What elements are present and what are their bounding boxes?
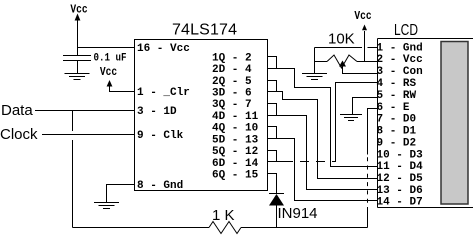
svg-text:13 - D6: 13 - D6 [377, 185, 423, 197]
wire 2Q/3D to LCD D5 [277, 92, 378, 179]
svg-text:2D - 4: 2D - 4 [212, 64, 252, 76]
svg-text:16 - Vcc: 16 - Vcc [137, 43, 190, 55]
svg-text:5Q - 12: 5Q - 12 [212, 146, 258, 158]
wire LCD Gnd to pot ground (gap at Vcc crossing) [315, 47, 378, 49]
wire 3Q/4D to LCD D6 [277, 116, 378, 190]
pot wiper arrow [339, 61, 346, 67]
svg-text:74LS174: 74LS174 [172, 22, 237, 39]
wire Data to pin3 1D [35, 110, 134, 112]
svg-text:1 - _Clr: 1 - _Clr [137, 87, 190, 99]
wire Clock to pin9 Clk [42, 134, 134, 136]
svg-text:1Q - 2: 1Q - 2 [212, 53, 252, 65]
svg-text:Vcc: Vcc [100, 66, 117, 79]
ground (capacitor) [65, 74, 90, 80]
svg-text:12 - D5: 12 - D5 [377, 173, 424, 185]
Vcc label top-left [70, 4, 87, 17]
wire E node vertical dashed crossing [367, 155, 369, 212]
svg-text:Clock: Clock [0, 126, 38, 143]
Vcc label mid-left [100, 66, 117, 79]
svg-text:Vcc: Vcc [70, 4, 87, 17]
wire pot left vertical [314, 48, 316, 74]
wire 1Q/2D to LCD D4 [277, 69, 378, 167]
svg-text:4D - 11: 4D - 11 [212, 111, 259, 123]
svg-text:9 - D2: 9 - D2 [377, 138, 417, 150]
potentiometer R2 10K zigzag [327, 55, 357, 68]
capacitor C1 0.1uF plates [63, 56, 91, 61]
svg-text:3Q - 7: 3Q - 7 [212, 99, 252, 111]
Vcc arrow pin1 [107, 80, 113, 87]
tab pins 5-6 (2Q to 3D) [267, 81, 277, 92]
svg-text:5 - RW: 5 - RW [377, 90, 417, 102]
wire pot right lead to LCD Vcc [357, 61, 378, 63]
resistor R1 1K zigzag [209, 222, 241, 234]
wire LCD RW to ground [353, 98, 378, 115]
svg-text:11 - D4: 11 - D4 [377, 161, 424, 173]
svg-text:8 - Gnd: 8 - Gnd [137, 180, 183, 192]
Vcc arrow right [362, 25, 367, 31]
svg-text:6 - E: 6 - E [377, 102, 410, 114]
svg-text:5D - 13: 5D - 13 [212, 135, 259, 147]
svg-text:3 - Con: 3 - Con [377, 66, 423, 78]
svg-text:3D - 6: 3D - 6 [212, 88, 252, 100]
wire 4Q/5D to LCD D7 [277, 139, 378, 201]
diode D1 IN914 triangle [269, 194, 284, 206]
wire 5Q/6D dashed crossing [284, 161, 333, 163]
svg-text:6Q - 15: 6Q - 15 [212, 170, 259, 182]
Vcc label right [354, 10, 371, 23]
tab pins 10-13 (4Q to 5D) [267, 127, 277, 139]
tab pins 7-11 (3Q to 4D) [267, 104, 277, 116]
wire capacitor to ground [77, 61, 79, 74]
wire Vcc to pot right [364, 31, 366, 62]
svg-text:4 - RS: 4 - RS [377, 78, 417, 90]
svg-text:LCD: LCD [394, 20, 418, 38]
ground (pot) [302, 74, 327, 80]
svg-text:4Q - 10: 4Q - 10 [212, 123, 258, 135]
tab pins 2-4 (1Q to 2D) [267, 57, 277, 69]
LCD title [394, 20, 418, 38]
wire pot left lead [315, 61, 328, 63]
wire diode to bottom [276, 206, 278, 228]
svg-text:14 - D7: 14 - D7 [377, 197, 423, 209]
svg-text:Data: Data [1, 102, 33, 119]
wire Vcc vertical to capacitor [77, 20, 79, 56]
LCD bezel gray strip [441, 42, 468, 205]
wire bottom left segment [73, 227, 210, 229]
svg-text:IN914: IN914 [278, 205, 318, 222]
wire to LCD RS [333, 83, 378, 162]
svg-text:1 K: 1 K [212, 207, 235, 224]
wire pin8 Gnd [107, 185, 135, 203]
svg-text:10 - D3: 10 - D3 [377, 150, 424, 162]
LCD connector box [378, 39, 473, 208]
svg-text:7 - D0: 7 - D0 [377, 114, 417, 126]
wire pin16 Vcc to IC [78, 47, 135, 49]
wire Vcc to pin1 _Clr [110, 86, 135, 92]
IC U1 74LS174 body [135, 40, 268, 191]
svg-text:1 - Gnd: 1 - Gnd [377, 43, 423, 55]
wire bottom right segment [241, 227, 368, 229]
ground (RW) [340, 115, 362, 121]
wire Data junction down to bottom [72, 111, 74, 228]
wire pin15 6Q to diode [267, 174, 277, 194]
ground (pin8) [94, 203, 119, 209]
wire E node vertical solid lower [367, 211, 369, 228]
svg-text:8 - D1: 8 - D1 [377, 126, 417, 138]
svg-text:Vcc: Vcc [354, 10, 371, 23]
svg-text:0.1 uF: 0.1 uF [94, 53, 127, 65]
svg-text:10K: 10K [328, 31, 355, 48]
svg-text:2Q - 5: 2Q - 5 [212, 76, 252, 88]
svg-text:9 - Clk: 9 - Clk [137, 130, 184, 142]
svg-text:2 - Vcc: 2 - Vcc [377, 54, 423, 66]
tab pins 12-14 (5Q to 6D) [267, 151, 277, 162]
svg-text:6D - 14: 6D - 14 [212, 158, 259, 170]
wire 5Q/6D solid stub [277, 161, 285, 163]
Vcc arrow top-left [75, 14, 81, 21]
svg-text:3 - 1D: 3 - 1D [137, 106, 177, 118]
wire wiper to LCD Con [343, 67, 378, 74]
wire E node vertical upper to LCD E [368, 109, 378, 155]
diode D1 IN914 cathode bar [269, 193, 284, 195]
